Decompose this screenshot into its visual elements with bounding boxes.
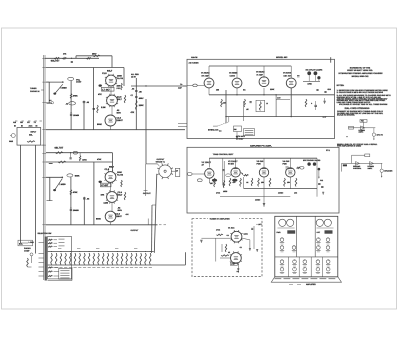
svg-text:1 MEG: 1 MEG <box>59 183 66 186</box>
svg-text:AM TUNER: AM TUNER <box>189 62 200 65</box>
svg-text:470K: 470K <box>97 158 102 161</box>
svg-text:1 MEG: 1 MEG <box>61 87 68 90</box>
svg-text:IF AMP: IF AMP <box>257 73 264 76</box>
svg-text:COMP: COMP <box>24 250 30 253</box>
svg-text:PHONO IN: PHONO IN <box>30 90 40 93</box>
svg-text:40/450: 40/450 <box>278 192 283 195</box>
svg-text:PLATE: PLATE <box>117 174 124 177</box>
svg-text:PWR: PWR <box>257 163 262 166</box>
svg-text:TUNER ST AMPLIFIER: TUNER ST AMPLIFIER <box>210 217 231 220</box>
svg-text:470K: 470K <box>82 158 87 161</box>
svg-text:SPK PH: SPK PH <box>377 133 384 136</box>
svg-text:1/2 W: 1/2 W <box>131 76 136 79</box>
svg-text:600V: 600V <box>117 111 122 114</box>
svg-text:250: 250 <box>261 181 264 184</box>
svg-text:AMPLIFIER PT-1 AMPL: AMPLIFIER PT-1 AMPL <box>250 144 272 147</box>
svg-text:500K: 500K <box>96 217 101 220</box>
svg-text:47K: 47K <box>98 93 102 96</box>
svg-text:2.2M: 2.2M <box>101 106 106 109</box>
svg-text:.02: .02 <box>66 103 69 106</box>
svg-text:250: 250 <box>287 181 290 184</box>
svg-text:AMPLIFIER: AMPLIFIER <box>306 283 316 286</box>
svg-text:CONTROL: CONTROL <box>353 167 361 170</box>
svg-text:V3 6BA6: V3 6BA6 <box>256 70 265 73</box>
svg-text:2. CAPACITORS IN MFD 400 VOLT: 2. CAPACITORS IN MFD 400 VOLT PAPER RATI… <box>337 91 384 94</box>
svg-text:DET AVC: DET AVC <box>284 75 293 78</box>
svg-text:FM: FM <box>20 121 23 124</box>
svg-text:V1 6C4: V1 6C4 <box>228 227 235 230</box>
svg-text:SCALE AS SHOWN.: SCALE AS SHOWN. <box>337 114 355 117</box>
svg-text:FIRST 50-WATT HIGH FID.: FIRST 50-WATT HIGH FID. <box>347 69 373 72</box>
svg-text:NO 2 PILOT LAMPS: NO 2 PILOT LAMPS <box>306 69 324 72</box>
svg-text:LT 4X7: LT 4X7 <box>102 88 110 91</box>
svg-text:DIAL CORD STRINGING: DIAL CORD STRINGING <box>345 107 370 110</box>
svg-text:PLATE: PLATE <box>117 77 124 80</box>
svg-text:.05: .05 <box>246 108 249 111</box>
svg-text:400V: 400V <box>139 97 144 100</box>
svg-text:L-PAD: L-PAD <box>29 241 35 244</box>
svg-text:470K: 470K <box>73 95 78 98</box>
svg-text:LT 4X7: LT 4X7 <box>101 184 109 187</box>
svg-text:.05: .05 <box>87 198 90 201</box>
svg-text:.05: .05 <box>132 88 135 91</box>
svg-text:25/25: 25/25 <box>223 190 227 193</box>
svg-text:INTEGRATED STEREO AMPLIFIER CH: INTEGRATED STEREO AMPLIFIER CHASSIS <box>339 72 384 75</box>
svg-text:V2 6BE6: V2 6BE6 <box>229 72 238 75</box>
svg-text:40/450: 40/450 <box>255 199 260 202</box>
svg-text:OUTPUT: OUTPUT <box>131 229 140 232</box>
svg-text:SPK PHONO JACKS: SPK PHONO JACKS <box>303 159 321 162</box>
svg-text:2.2M: 2.2M <box>104 202 109 205</box>
svg-text:GND: GND <box>9 140 14 143</box>
svg-text:CONT: CONT <box>76 81 82 84</box>
svg-text:MODEL 9090-762: MODEL 9090-762 <box>352 75 370 78</box>
svg-text:6SL7: 6SL7 <box>109 166 115 169</box>
svg-text:MODEL 99C: MODEL 99C <box>276 56 288 59</box>
svg-text:LT47: LT47 <box>231 263 235 266</box>
svg-text:SW: SW <box>234 128 237 131</box>
svg-text:SCHEMATIC OF THE: SCHEMATIC OF THE <box>350 67 371 70</box>
svg-text:.02: .02 <box>246 181 248 184</box>
svg-text:AC ONLY: AC ONLY <box>236 137 244 140</box>
svg-text:PT-2: PT-2 <box>326 149 330 152</box>
svg-text:PWR: PWR <box>283 163 288 166</box>
svg-text:AMPL: AMPL <box>368 167 373 170</box>
svg-text:20/450: 20/450 <box>73 114 79 117</box>
svg-text:RF AMP: RF AMP <box>202 75 210 78</box>
svg-text:TONE CONTROL SECT: TONE CONTROL SECT <box>213 153 234 156</box>
svg-text:SPEAKER: SPEAKER <box>384 169 393 172</box>
svg-text:.05: .05 <box>86 101 89 104</box>
svg-text:220K: 220K <box>270 88 275 91</box>
svg-text:600V: 600V <box>118 209 123 212</box>
svg-text:AMPL: AMPL <box>359 131 364 134</box>
svg-text:20/450: 20/450 <box>73 209 79 212</box>
svg-text:47K: 47K <box>101 193 105 196</box>
svg-text:VOLTAGES AT SOCKET PINS OF ALL: VOLTAGES AT SOCKET PINS OF ALL TUBES SHO… <box>339 103 388 106</box>
svg-text:NOTES:: NOTES: <box>337 84 345 87</box>
svg-text:L1: L1 <box>266 102 268 105</box>
svg-text:C7: C7 <box>131 94 133 97</box>
svg-text:AM: AM <box>13 121 16 124</box>
svg-text:470K: 470K <box>307 82 312 85</box>
svg-text:OUTPUT: OUTPUT <box>143 192 152 195</box>
svg-text:500K: 500K <box>75 175 80 178</box>
svg-text:455: 455 <box>216 89 219 92</box>
svg-text:V1 6BA6: V1 6BA6 <box>201 72 210 75</box>
svg-text:12BH7: 12BH7 <box>117 119 124 122</box>
svg-text:PWR AMPL/SPKR IS USED: PWR AMPL/SPKR IS USED <box>337 145 362 148</box>
svg-text:220K: 220K <box>139 104 144 107</box>
svg-text:TUNER: TUNER <box>30 87 37 90</box>
svg-text:C2: C2 <box>240 246 242 249</box>
svg-text:INTERLOCK: INTERLOCK <box>208 129 219 132</box>
svg-text:6SL7GT: 6SL7GT <box>55 146 64 149</box>
svg-text:250V: 250V <box>92 53 97 56</box>
svg-text:INPUT: INPUT <box>31 131 38 134</box>
svg-text:12BH7: 12BH7 <box>116 215 123 218</box>
svg-text:AM-FM: AM-FM <box>191 56 198 59</box>
svg-text:PH INV: PH INV <box>228 163 235 166</box>
svg-text:100K: 100K <box>117 171 122 174</box>
svg-text:C12: C12 <box>320 179 323 182</box>
svg-text:470K: 470K <box>73 191 78 194</box>
svg-text:TRANS T1: TRANS T1 <box>156 160 165 163</box>
svg-text:V2: V2 <box>228 251 230 254</box>
svg-text:500K: 500K <box>97 123 102 126</box>
svg-text:6SL7: 6SL7 <box>107 70 113 73</box>
svg-text:C4: C4 <box>227 234 229 237</box>
svg-text:CONV: CONV <box>230 75 236 78</box>
svg-text:SELECTOR SW: SELECTOR SW <box>38 232 52 235</box>
svg-text:6SL7GT: 6SL7GT <box>51 59 60 62</box>
svg-text:6X4: 6X4 <box>328 88 331 91</box>
svg-text:10K: 10K <box>117 85 121 88</box>
svg-text:V4 6AV6: V4 6AV6 <box>283 72 292 75</box>
svg-text:47K: 47K <box>131 111 135 114</box>
